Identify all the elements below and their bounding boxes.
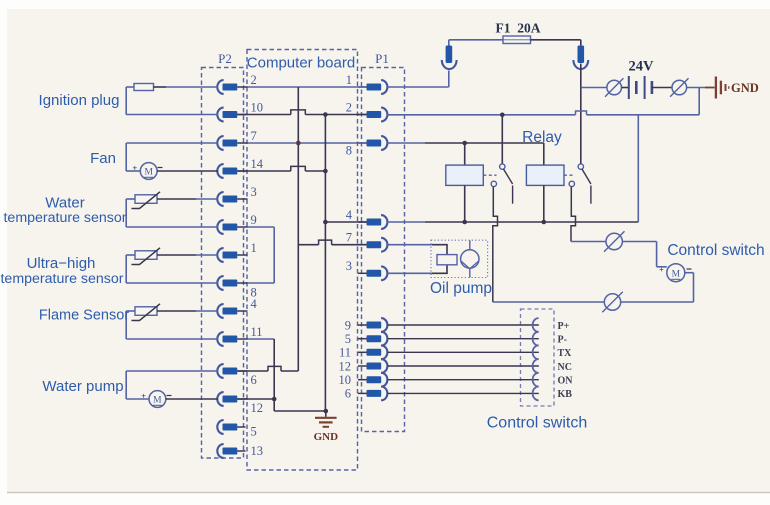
svg-text:Relay: Relay — [522, 129, 562, 146]
svg-text:+: + — [659, 265, 664, 274]
svg-text:TX: TX — [558, 348, 573, 359]
svg-text:Control switch: Control switch — [487, 415, 587, 432]
svg-text:Control switch: Control switch — [667, 242, 764, 259]
svg-text:4: 4 — [251, 297, 258, 311]
svg-text:P1: P1 — [375, 51, 389, 66]
svg-text:12: 12 — [251, 401, 264, 415]
svg-text:11: 11 — [339, 346, 351, 360]
svg-text:Fan: Fan — [90, 150, 116, 167]
svg-text:6: 6 — [345, 387, 351, 401]
svg-text:F1 20A: F1 20A — [496, 21, 541, 36]
svg-text:10: 10 — [339, 373, 352, 387]
svg-text:temperature sensor: temperature sensor — [0, 271, 123, 287]
svg-text:GND: GND — [731, 81, 759, 95]
svg-text:temperature sensor: temperature sensor — [3, 210, 126, 226]
svg-text:7: 7 — [251, 129, 257, 143]
svg-text:M: M — [144, 168, 153, 178]
svg-text:8: 8 — [346, 144, 352, 158]
svg-text:10: 10 — [251, 100, 264, 114]
svg-text:1: 1 — [251, 241, 257, 255]
svg-text:GND: GND — [314, 431, 339, 443]
svg-text:P-: P- — [558, 335, 567, 346]
svg-text:ON: ON — [558, 376, 574, 387]
svg-text:P+: P+ — [558, 321, 570, 332]
svg-text:Flame Sensor: Flame Sensor — [39, 308, 129, 324]
svg-text:P2: P2 — [218, 51, 232, 66]
svg-text:12: 12 — [339, 359, 352, 373]
svg-text:3: 3 — [346, 259, 352, 273]
svg-text:3: 3 — [251, 185, 257, 199]
svg-text:9: 9 — [345, 318, 351, 332]
svg-text:Ignition plug: Ignition plug — [39, 92, 120, 109]
svg-text:13: 13 — [251, 444, 264, 458]
svg-text:1: 1 — [346, 73, 352, 87]
svg-text:2: 2 — [346, 101, 352, 115]
svg-text:11: 11 — [251, 325, 263, 339]
svg-text:NC: NC — [558, 362, 572, 373]
svg-text:7: 7 — [346, 231, 352, 245]
svg-text:Water pump: Water pump — [42, 378, 123, 395]
svg-text:5: 5 — [345, 332, 351, 346]
svg-text:Ultra−high: Ultra−high — [27, 255, 96, 272]
svg-text:6: 6 — [251, 373, 257, 387]
svg-text:Oil pump: Oil pump — [430, 280, 492, 297]
svg-text:2: 2 — [251, 73, 257, 87]
svg-text:M: M — [153, 396, 162, 406]
svg-text:+: + — [132, 164, 137, 173]
svg-text:KB: KB — [558, 389, 573, 400]
svg-text:9: 9 — [251, 213, 257, 227]
svg-text:24V: 24V — [629, 59, 655, 75]
svg-text:M: M — [672, 270, 681, 280]
svg-text:+: + — [141, 392, 146, 401]
svg-text:5: 5 — [251, 425, 257, 439]
svg-text:14: 14 — [251, 157, 264, 171]
svg-text:4: 4 — [346, 208, 353, 222]
svg-text:Computer board: Computer board — [247, 55, 355, 72]
